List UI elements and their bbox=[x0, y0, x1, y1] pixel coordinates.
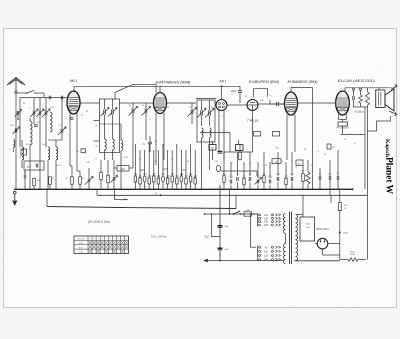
svg-text:0000: 0000 bbox=[56, 165, 62, 167]
svg-text:22µ: 22µ bbox=[205, 236, 210, 238]
capacitor C1a ant bbox=[48, 96, 50, 100]
svg-text:1: 1 bbox=[122, 238, 123, 240]
wire secondary bottom bbox=[296, 260, 323, 262]
node heater start bbox=[204, 213, 206, 215]
wire box to rectifier bbox=[315, 243, 318, 245]
IFT1 coil a bbox=[104, 124, 106, 139]
svg-text:7 Àµ µL: 7 Àµ µL bbox=[247, 119, 260, 123]
capacitor C17 tone a bbox=[352, 88, 354, 90]
speaker LS1 bbox=[385, 89, 394, 111]
bus B3 bbox=[47, 207, 120, 208]
capacitor Cm6 bbox=[256, 180, 258, 184]
capacitor Cm7 bbox=[263, 176, 265, 183]
resistor R12 zigzag right bbox=[366, 92, 370, 105]
svg-text:220: 220 bbox=[264, 224, 269, 227]
transformer T2 output bbox=[376, 90, 385, 108]
IFT1 coil b bbox=[112, 124, 114, 139]
svg-text:E447/MENS (894): E447/MENS (894) bbox=[156, 81, 191, 85]
svg-text:M.W.: M.W. bbox=[79, 243, 84, 245]
box 2uF left bbox=[24, 161, 44, 170]
coil L2 bbox=[50, 112, 52, 132]
trimmer Cm arrows bbox=[255, 178, 262, 185]
capacitor Cm5 bbox=[248, 177, 250, 181]
resistor R21 box bbox=[327, 144, 331, 149]
wire elbow x211 bbox=[212, 214, 221, 237]
resistor R20 box bbox=[81, 149, 86, 153]
tube V5 EUB bbox=[285, 92, 298, 115]
taps bracket 2 bbox=[257, 246, 259, 261]
wire v4 to v5 bbox=[258, 103, 285, 105]
trimmer C11 bbox=[190, 110, 192, 115]
resistor R1 bbox=[33, 178, 36, 186]
wire v3 to v4 bbox=[227, 104, 247, 106]
tube V3 AB1 bbox=[216, 100, 227, 111]
wire plate v2 to IFT2 bbox=[167, 102, 197, 104]
svg-text:110: 110 bbox=[264, 250, 268, 253]
svg-text:1: 1 bbox=[114, 238, 115, 240]
wire v3 pins bbox=[218, 111, 220, 153]
transformer core bbox=[289, 212, 291, 265]
bracket over V4 bbox=[254, 89, 268, 97]
capacitor C2 bbox=[34, 124, 38, 126]
tap T1-3 150V bbox=[259, 221, 261, 223]
svg-text:1: 1 bbox=[98, 238, 99, 240]
wire col x34 bbox=[33, 98, 35, 111]
svg-text:1: 1 bbox=[102, 238, 103, 240]
ground symbol bbox=[14, 191, 17, 194]
svg-text:2M: 2M bbox=[143, 174, 146, 176]
wire x331 bbox=[330, 195, 332, 203]
IFT1 coil c bbox=[121, 140, 123, 151]
resistor Rm3 bbox=[143, 176, 146, 182]
capacitor Cm1 bbox=[223, 176, 225, 183]
wire IFT1 internal bbox=[100, 123, 122, 125]
svg-text:0000: 0000 bbox=[26, 144, 32, 146]
trimmer C8 bbox=[131, 109, 133, 114]
electrolytic C13e bbox=[216, 165, 220, 171]
wire v2 pins bbox=[155, 113, 157, 165]
resistor Rm8 bbox=[166, 178, 169, 184]
svg-text:1M: 1M bbox=[37, 180, 40, 182]
svg-text:(MGN 05L): (MGN 05L) bbox=[316, 228, 329, 231]
svg-text:EUB0/PEN (894): EUB0/PEN (894) bbox=[249, 80, 279, 84]
table band switch bbox=[74, 236, 129, 254]
tap T2-3 125V bbox=[259, 254, 261, 256]
IFT1 trimmer a bbox=[103, 110, 105, 115]
wire v3 top stub bbox=[221, 86, 223, 99]
svg-text:AM 1: AM 1 bbox=[69, 79, 78, 83]
IF transformer IFT2 box bbox=[197, 100, 215, 142]
scan speckle bbox=[5, 30, 395, 305]
wire plate v5 coupling bbox=[298, 102, 336, 104]
wire elbow mid b bbox=[163, 168, 168, 170]
wire IFT1 left stub b bbox=[94, 140, 100, 142]
svg-text:9(: 9( bbox=[96, 126, 98, 128]
trimmer C7 bbox=[87, 179, 89, 183]
wire speaker top bbox=[378, 88, 380, 90]
capacitor Cm10 bbox=[285, 178, 287, 185]
wire v6 top stub bbox=[344, 88, 346, 92]
IFT1 trimmer b bbox=[111, 110, 113, 115]
svg-text:AB 1: AB 1 bbox=[219, 80, 227, 84]
coil L3 bbox=[22, 147, 24, 160]
capacitor Cm2 bbox=[229, 180, 231, 184]
wire secondary top bbox=[296, 214, 304, 216]
stub 14F node bbox=[113, 189, 115, 199]
power transformer T1 primary lower bbox=[284, 244, 286, 264]
capacitor C21 16uF node bbox=[339, 232, 341, 234]
IFT2 coil b bbox=[210, 128, 212, 138]
wire top bus right bbox=[345, 87, 392, 89]
resistor Rm1 bbox=[134, 176, 137, 182]
resistor Rm10 bbox=[176, 178, 179, 184]
resistor Rm9 bbox=[171, 176, 174, 182]
antenna A1 bbox=[7, 78, 25, 86]
capacitor C1b ant bbox=[60, 96, 62, 100]
capacitor C14 bbox=[328, 176, 330, 180]
trimmer C4 bbox=[60, 129, 62, 134]
capacitor Cm4 bbox=[243, 178, 245, 185]
svg-text:(5-150µ): (5-150µ) bbox=[355, 112, 364, 114]
wire elbow mid a bbox=[140, 169, 145, 171]
IF transformer IFT1 box bbox=[100, 99, 120, 153]
wire cathode h bbox=[341, 133, 366, 135]
wire v1 cathode pins bbox=[69, 114, 71, 167]
wire x262 bbox=[261, 136, 263, 162]
resistor R11 cathode v6 bbox=[338, 115, 340, 120]
power transformer T1 secondary bbox=[296, 215, 298, 261]
wire antenna coupling bbox=[43, 93, 45, 98]
wire top bus main bbox=[74, 85, 240, 87]
resistor Rm6 bbox=[157, 178, 160, 184]
IFT2 trimmer a bbox=[200, 111, 202, 116]
resistor Rtop3 box bbox=[296, 160, 303, 166]
svg-text:14F: 14F bbox=[124, 157, 128, 159]
svg-text:150: 150 bbox=[264, 259, 269, 262]
svg-text:14F: 14F bbox=[86, 162, 90, 164]
wire x72 h bbox=[70, 165, 72, 167]
tap T2-1 40V bbox=[259, 246, 261, 248]
svg-text:2M: 2M bbox=[143, 186, 146, 188]
bottom bus left bbox=[206, 260, 284, 262]
svg-text:1M: 1M bbox=[157, 176, 160, 178]
capacitor C12 coupling bbox=[276, 102, 278, 107]
wire right tone bottom bbox=[354, 106, 368, 108]
trimmer C2c bbox=[44, 111, 46, 116]
capacitor C22 1uF bbox=[218, 225, 223, 227]
wire primary middle bbox=[285, 234, 287, 244]
tap T2-2 110V bbox=[259, 250, 261, 252]
wire AVC bbox=[200, 132, 230, 134]
switch S2 mains bbox=[233, 213, 235, 215]
wire diagonal to V2 bbox=[115, 84, 133, 92]
tap T2-4 150V bbox=[259, 259, 261, 261]
IFT2 trimmer b bbox=[208, 111, 210, 116]
svg-text:K.W.: K.W. bbox=[79, 247, 84, 249]
wire v2 top stub bbox=[159, 86, 161, 92]
node bus end bbox=[352, 188, 354, 190]
wire IFT1 to grid v2 bbox=[119, 102, 154, 104]
wire speaker return bbox=[367, 116, 391, 131]
svg-text:Bereich: Bereich bbox=[78, 239, 85, 241]
trimmer C9 bbox=[144, 109, 146, 114]
resistor Rm5 bbox=[153, 176, 156, 182]
resistor Rm4 bbox=[148, 178, 151, 184]
resistor R3 bbox=[71, 177, 74, 185]
svg-text:ZF=128,5 kHz: ZF=128,5 kHz bbox=[87, 220, 111, 224]
tap T1-1 110V bbox=[259, 214, 261, 216]
resistor Rm12 bbox=[185, 178, 188, 184]
svg-text:1: 1 bbox=[106, 238, 107, 240]
svg-text:125: 125 bbox=[264, 255, 269, 258]
wire x240 h bbox=[224, 151, 253, 153]
tap T1-2 125V bbox=[259, 217, 261, 219]
box Rb1 bbox=[272, 159, 281, 164]
svg-text:1: 1 bbox=[94, 238, 95, 240]
wire cross x56 bbox=[48, 139, 62, 141]
bus heater bbox=[204, 213, 258, 215]
small boxes near v4 bbox=[254, 132, 261, 137]
tube V1 AM1 bbox=[67, 91, 80, 114]
svg-text:Kapsch: Kapsch bbox=[384, 139, 390, 157]
magic eye EM4 box bbox=[300, 217, 315, 241]
bottom bus right bbox=[294, 260, 340, 262]
tube V2 E447 bbox=[154, 93, 167, 114]
taps bracket 1 bbox=[257, 214, 259, 227]
resistor R13 4.8ohm bbox=[244, 212, 252, 216]
resistor Rtop1 AN bbox=[209, 145, 216, 151]
resistor R6 bbox=[107, 175, 110, 183]
svg-text:2µF: 2µF bbox=[27, 166, 32, 169]
wire x220 drop bbox=[219, 185, 221, 261]
resistor R10 bbox=[302, 174, 305, 182]
coil L1 ant primary bbox=[14, 129, 16, 133]
svg-text:2µF: 2µF bbox=[225, 249, 229, 251]
box 2uF mid bbox=[117, 166, 129, 172]
wire x229 drop bbox=[229, 189, 231, 214]
resistor Rm11 bbox=[180, 176, 183, 182]
resistor Rm7 bbox=[162, 176, 165, 182]
svg-text:J: J bbox=[149, 119, 150, 121]
svg-text:Planet W: Planet W bbox=[385, 157, 395, 194]
resistor Rm2 bbox=[139, 178, 142, 184]
trimmer C8b bbox=[112, 177, 114, 181]
wire box down bbox=[32, 170, 34, 182]
wire h171 bbox=[221, 170, 257, 172]
capacitor Cm9 bbox=[276, 177, 278, 181]
svg-text:400Ω: 400Ω bbox=[350, 254, 356, 256]
capacitor C5 pad bbox=[70, 117, 74, 119]
capacitor Cm3 bbox=[236, 177, 238, 181]
rectifier tube AZ1 bbox=[317, 238, 328, 249]
ground bus main bbox=[14, 188, 353, 190]
capacitor C18 tone b bbox=[359, 88, 361, 90]
svg-text:1: 1 bbox=[118, 238, 119, 240]
resistor R5 bbox=[100, 172, 103, 180]
wire right column b bbox=[364, 107, 366, 189]
wire IFT1 left stub a bbox=[94, 120, 100, 122]
svg-text:2µF: 2µF bbox=[121, 169, 126, 171]
wire v5 top bbox=[290, 88, 292, 93]
wire rectifier right bbox=[328, 243, 340, 245]
svg-text:ELL3H (AES 001): ELL3H (AES 001) bbox=[338, 79, 375, 83]
svg-text:1: 1 bbox=[90, 238, 91, 240]
wire IFT2 to diode v3 bbox=[215, 101, 216, 103]
resistor Rm13 bbox=[189, 176, 192, 182]
svg-text:G.05: G.05 bbox=[305, 224, 311, 226]
tube V4 diode bbox=[247, 100, 258, 111]
wire x303 up bbox=[302, 195, 304, 214]
resistor R4 bbox=[79, 177, 82, 185]
coil L4 osc bbox=[29, 118, 31, 121]
capacitor C24 dark bbox=[218, 151, 223, 153]
svg-text:10µF: 10µF bbox=[231, 89, 237, 93]
node bus2 b bbox=[160, 194, 162, 196]
wire v4 pin bbox=[252, 111, 254, 153]
wire y98 to AB1 bbox=[196, 98, 217, 100]
switch S1 antenna bbox=[17, 92, 27, 94]
tube V6 ELL3H output bbox=[336, 91, 350, 115]
capacitor C23 2uF bbox=[218, 247, 223, 249]
coil L6 bbox=[56, 147, 58, 160]
svg-text:1: 1 bbox=[110, 238, 111, 240]
capacitor Cm8 bbox=[268, 180, 270, 184]
capacitor C6 bbox=[23, 175, 25, 179]
wire x77 h bbox=[77, 170, 80, 172]
IFT2 coil a bbox=[202, 128, 204, 138]
tap T1-4 220V bbox=[259, 224, 261, 226]
table X marks bbox=[89, 241, 92, 244]
resistor R14 150ohm bbox=[338, 203, 341, 211]
wire x338 down bbox=[337, 134, 339, 150]
wire rectifier bottom bbox=[322, 249, 324, 255]
capacitor C13 bbox=[318, 176, 320, 180]
svg-text:1µF: 1µF bbox=[225, 226, 229, 228]
wire heater to taps2 bbox=[251, 214, 257, 247]
wire col x46 bbox=[45, 98, 47, 111]
wire right column bbox=[367, 107, 369, 260]
svg-text:M.Ge. 2.BF-Rato: M.Ge. 2.BF-Rato bbox=[151, 236, 168, 239]
wire elbow mid c bbox=[181, 169, 186, 171]
svg-text:9(: 9( bbox=[96, 146, 98, 148]
resistor Rm14 bbox=[194, 178, 197, 184]
capacitor C30 bbox=[148, 141, 152, 143]
svg-text:Rest: Rest bbox=[350, 250, 355, 253]
resistor R2 bbox=[49, 177, 52, 185]
trimmer C2a bbox=[32, 111, 34, 116]
wire plate v1 to IFT1 bbox=[80, 102, 100, 104]
trimmer C0 small bbox=[16, 111, 18, 115]
resistor R9 zigzag bbox=[306, 172, 310, 184]
power transformer T1 primary upper bbox=[284, 214, 286, 234]
resistor Rtop2 bbox=[236, 145, 244, 151]
capacitor C15 bbox=[336, 176, 338, 180]
svg-text:4,8Ω: 4,8Ω bbox=[245, 210, 250, 212]
capacitor Cm11 bbox=[290, 177, 292, 181]
svg-text:16µF: 16µF bbox=[343, 232, 349, 234]
coil L5 bbox=[48, 147, 50, 160]
svg-text:1: 1 bbox=[126, 238, 127, 240]
trimmer C2b bbox=[38, 111, 40, 116]
bus B2 bbox=[97, 194, 367, 196]
box S left bbox=[21, 149, 27, 155]
svg-text:L.W.: L.W. bbox=[79, 252, 83, 254]
terminal out bottom bbox=[389, 111, 397, 115]
wire col x40 bbox=[39, 98, 41, 111]
wire v5 pins bbox=[286, 115, 288, 161]
svg-text:EUB/MENS (894): EUB/MENS (894) bbox=[288, 80, 318, 84]
terminal out top bbox=[391, 86, 397, 90]
resistor R8 bbox=[239, 152, 242, 160]
